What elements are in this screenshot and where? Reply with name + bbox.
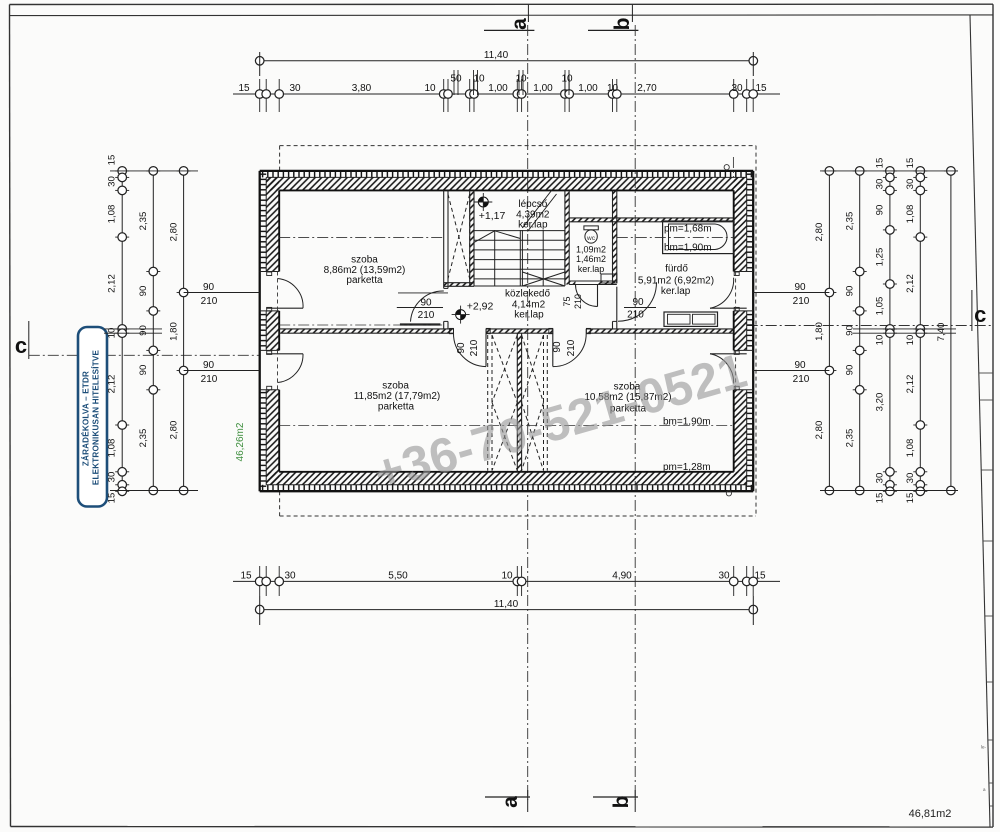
svg-text:pm=1,28m: pm=1,28m bbox=[663, 462, 711, 473]
sheet frame inner top line bbox=[10, 14, 994, 17]
svg-text:210: 210 bbox=[418, 310, 435, 321]
svg-text:210: 210 bbox=[201, 374, 218, 385]
svg-text:15: 15 bbox=[107, 493, 118, 504]
right dim chain E total 7,40 bbox=[950, 171, 952, 491]
small o marker top bbox=[724, 165, 729, 170]
exterior wall masonry layer bbox=[266, 177, 747, 190]
left dim chain 1 bbox=[121, 171, 123, 491]
svg-text:210: 210 bbox=[793, 374, 810, 385]
svg-text:210: 210 bbox=[627, 310, 644, 321]
svg-text:90: 90 bbox=[203, 360, 215, 371]
svg-text:10: 10 bbox=[515, 74, 527, 85]
right leader 90/210 lower bbox=[753, 370, 829, 372]
svg-text:30: 30 bbox=[107, 176, 118, 187]
svg-text:30: 30 bbox=[731, 83, 743, 94]
svg-text:1,08: 1,08 bbox=[905, 439, 916, 458]
right chains tie lines bbox=[820, 170, 958, 172]
right dim chain A bbox=[828, 171, 830, 491]
bottom dim line total 11,40 bbox=[260, 609, 754, 611]
svg-text:90: 90 bbox=[845, 325, 856, 336]
svg-text:2,12: 2,12 bbox=[905, 274, 916, 293]
door right wall lower bbox=[710, 353, 747, 355]
level marker +2,92 bbox=[456, 310, 466, 320]
svg-text:30: 30 bbox=[284, 571, 296, 582]
svg-text:2,80: 2,80 bbox=[814, 223, 825, 242]
svg-text:15: 15 bbox=[875, 158, 886, 169]
svg-text:10: 10 bbox=[607, 83, 619, 94]
svg-text:3,80: 3,80 bbox=[352, 83, 372, 94]
door to wc bbox=[597, 285, 599, 307]
svg-text:szoba: szoba bbox=[351, 255, 378, 266]
right dashed roof strip with X bbox=[546, 335, 548, 471]
svg-text:2,12: 2,12 bbox=[107, 274, 118, 293]
svg-text:1,09m2: 1,09m2 bbox=[576, 245, 606, 255]
svg-text:ELEKTRONIKUSAN HITELESÍTVE: ELEKTRONIKUSAN HITELESÍTVE bbox=[92, 350, 101, 486]
svg-text:50: 50 bbox=[450, 74, 462, 85]
door to szoba2 bbox=[485, 333, 487, 366]
svg-text:90: 90 bbox=[875, 205, 886, 216]
svg-text:ker.lap: ker.lap bbox=[578, 264, 605, 274]
svg-text:1,00: 1,00 bbox=[578, 83, 598, 94]
svg-text:10: 10 bbox=[501, 571, 513, 582]
svg-text:2,80: 2,80 bbox=[169, 421, 180, 440]
svg-text:15: 15 bbox=[905, 493, 916, 504]
right leader 90/210 upper bbox=[753, 292, 829, 294]
left dim chain 2 bbox=[152, 171, 154, 491]
svg-text:30: 30 bbox=[875, 473, 886, 484]
svg-text:10: 10 bbox=[905, 335, 916, 346]
axis szoba1 bottom (c line inside) bbox=[279, 324, 444, 326]
door to furdo bbox=[618, 281, 657, 283]
section line b bbox=[634, 25, 636, 800]
svg-text:1,00: 1,00 bbox=[488, 83, 508, 94]
svg-text:1,08: 1,08 bbox=[107, 439, 118, 458]
svg-text:46,26m2: 46,26m2 bbox=[235, 422, 246, 461]
svg-text:30: 30 bbox=[718, 571, 730, 582]
svg-text:b: b bbox=[611, 18, 634, 31]
svg-text:10: 10 bbox=[561, 74, 573, 85]
svg-text:15: 15 bbox=[107, 155, 118, 166]
door left wall lower bbox=[266, 353, 303, 355]
svg-text:10: 10 bbox=[473, 74, 485, 85]
stairs bbox=[474, 230, 565, 232]
wc-furdo north partition bbox=[569, 218, 734, 222]
svg-text:75: 75 bbox=[562, 296, 572, 306]
section line c right bbox=[747, 325, 993, 327]
svg-text:30: 30 bbox=[905, 473, 916, 484]
svg-text:1,00: 1,00 bbox=[533, 83, 553, 94]
svg-text:90: 90 bbox=[794, 360, 806, 371]
svg-text:ker.lap: ker.lap bbox=[518, 220, 548, 231]
svg-text:15: 15 bbox=[875, 493, 886, 504]
wc east / furdo west wall bbox=[613, 190, 617, 283]
svg-text:30: 30 bbox=[289, 83, 301, 94]
door left wall upper bbox=[266, 307, 303, 309]
svg-text:2,35: 2,35 bbox=[138, 429, 149, 448]
svg-text:2,70: 2,70 bbox=[637, 83, 657, 94]
left leader 90/210 upper bbox=[184, 292, 260, 294]
svg-text:90: 90 bbox=[632, 297, 644, 308]
svg-text:közlekedő: közlekedő bbox=[505, 289, 550, 300]
svg-text:90: 90 bbox=[420, 298, 432, 309]
svg-text:c: c bbox=[15, 333, 27, 358]
small o marker bottom bbox=[726, 491, 731, 496]
svg-text:90: 90 bbox=[456, 342, 467, 354]
right dim chain B bbox=[859, 171, 861, 491]
svg-text:ker.lap: ker.lap bbox=[514, 310, 544, 321]
svg-text:210: 210 bbox=[793, 296, 810, 307]
svg-text:szoba: szoba bbox=[382, 381, 409, 392]
svg-text:30: 30 bbox=[107, 472, 118, 483]
stairs west wall bbox=[470, 190, 474, 286]
svg-text:210: 210 bbox=[469, 339, 480, 356]
svg-text:10: 10 bbox=[424, 83, 436, 94]
washbasin double bbox=[664, 312, 718, 326]
svg-text:ZÁRADÉKOLVA – ETDR: ZÁRADÉKOLVA – ETDR bbox=[82, 371, 91, 466]
svg-text:90: 90 bbox=[845, 286, 856, 297]
svg-text:15: 15 bbox=[240, 571, 252, 582]
title block separator line bbox=[970, 15, 990, 827]
partition between lower szobas bbox=[517, 333, 521, 472]
svg-text:bm=1,90m: bm=1,90m bbox=[664, 243, 712, 254]
svg-text:ker.lap: ker.lap bbox=[661, 286, 691, 297]
left leader 90/210 lower bbox=[184, 370, 260, 372]
svg-text:+1,17: +1,17 bbox=[479, 210, 506, 222]
svg-text:1,25: 1,25 bbox=[875, 248, 886, 267]
right dim chain D bbox=[919, 171, 921, 491]
door to szoba1 bbox=[398, 292, 448, 294]
svg-text:90: 90 bbox=[138, 365, 149, 376]
door to szoba3 bbox=[552, 333, 554, 366]
svg-text:lépcső: lépcső bbox=[518, 199, 547, 210]
section line c left bbox=[29, 354, 260, 356]
bathtub bbox=[663, 221, 734, 254]
door right wall upper bbox=[710, 307, 747, 309]
svg-text:5,91m2 (6,92m2): 5,91m2 (6,92m2) bbox=[638, 276, 714, 287]
wc toilet bbox=[584, 226, 598, 230]
top dim line segments bbox=[233, 93, 780, 95]
svg-text:parketta: parketta bbox=[346, 275, 383, 286]
left chains tie lines bbox=[110, 170, 198, 172]
svg-text:wc: wc bbox=[586, 235, 596, 242]
svg-text:3,20: 3,20 bbox=[875, 393, 886, 412]
upper dashed shaft strip with X bbox=[447, 194, 449, 278]
svg-text:pm=1,68m: pm=1,68m bbox=[664, 224, 712, 235]
svg-text:parketta: parketta bbox=[378, 402, 415, 413]
axis upper rooms bbox=[279, 237, 444, 239]
svg-text:+2,92: +2,92 bbox=[467, 301, 494, 313]
svg-text:2,12: 2,12 bbox=[905, 375, 916, 394]
svg-text:15: 15 bbox=[905, 158, 916, 169]
axis furdo bbox=[617, 237, 734, 239]
svg-text:2,12: 2,12 bbox=[107, 375, 118, 394]
level marker +1,17 bbox=[478, 197, 488, 207]
svg-text:210: 210 bbox=[573, 294, 583, 309]
svg-text:90: 90 bbox=[845, 365, 856, 376]
top dim line total 11,40 bbox=[260, 60, 754, 62]
svg-text:90: 90 bbox=[203, 282, 215, 293]
left dashed roof strip with X bbox=[487, 335, 489, 471]
axis mark top right wall bbox=[732, 157, 734, 177]
svg-text:a: a bbox=[499, 796, 522, 808]
svg-text:15: 15 bbox=[754, 571, 766, 582]
svg-text:7,40: 7,40 bbox=[936, 323, 947, 342]
svg-text:2,35: 2,35 bbox=[138, 212, 149, 231]
svg-text:1,80: 1,80 bbox=[169, 322, 180, 341]
svg-text:30: 30 bbox=[905, 179, 916, 190]
right dim chain C bbox=[889, 171, 891, 491]
svg-text:1,46m2: 1,46m2 bbox=[576, 254, 606, 264]
svg-text:15: 15 bbox=[238, 83, 250, 94]
svg-text:1,08: 1,08 bbox=[107, 205, 118, 224]
svg-text:1,08: 1,08 bbox=[905, 205, 916, 224]
svg-text:10: 10 bbox=[875, 335, 886, 346]
left dim chain 3 bbox=[183, 171, 185, 491]
svg-text:le-: le- bbox=[981, 745, 987, 750]
svg-text:90: 90 bbox=[138, 325, 149, 336]
svg-text:15: 15 bbox=[755, 83, 767, 94]
svg-text:11,85m2 (17,79m2): 11,85m2 (17,79m2) bbox=[354, 391, 441, 402]
stairs east / wc west wall bbox=[565, 190, 569, 284]
partition wall szoba1 east bbox=[443, 190, 445, 288]
section line a bbox=[527, 25, 529, 800]
wc south wall bbox=[569, 281, 575, 285]
sheet frame outer border bbox=[10, 3, 994, 5]
svg-text:90: 90 bbox=[552, 341, 563, 353]
kozlekedo north wall west bbox=[444, 283, 474, 287]
middle partition wall bbox=[279, 329, 453, 333]
etdr stamp bbox=[78, 327, 107, 507]
roof edge dashed outline bbox=[280, 145, 756, 147]
svg-text:5,50: 5,50 bbox=[388, 571, 408, 582]
exterior wall insulation layer bbox=[260, 171, 754, 178]
wc shelf nook bbox=[601, 274, 617, 283]
axis lower rooms bbox=[279, 425, 734, 427]
svg-text:1,80: 1,80 bbox=[814, 322, 825, 341]
svg-text:90: 90 bbox=[138, 286, 149, 297]
svg-text:2,35: 2,35 bbox=[845, 429, 856, 448]
svg-text:fürdő: fürdő bbox=[665, 264, 688, 275]
svg-text:1,05: 1,05 bbox=[875, 297, 886, 316]
svg-text:2,80: 2,80 bbox=[169, 223, 180, 242]
svg-text:c: c bbox=[974, 302, 986, 327]
svg-text:210: 210 bbox=[201, 296, 218, 307]
title block cell lines bbox=[979, 372, 993, 374]
svg-text:2,80: 2,80 bbox=[814, 421, 825, 440]
svg-text:90: 90 bbox=[794, 282, 806, 293]
svg-text:210: 210 bbox=[566, 339, 577, 356]
svg-text:46,81m2: 46,81m2 bbox=[909, 808, 952, 820]
svg-text:30: 30 bbox=[875, 179, 886, 190]
svg-text:11,40: 11,40 bbox=[494, 599, 519, 610]
svg-text:4,90: 4,90 bbox=[612, 571, 632, 582]
svg-text:11,40: 11,40 bbox=[484, 50, 509, 61]
bottom dim line segments bbox=[233, 580, 780, 582]
svg-text:2,35: 2,35 bbox=[845, 212, 856, 231]
